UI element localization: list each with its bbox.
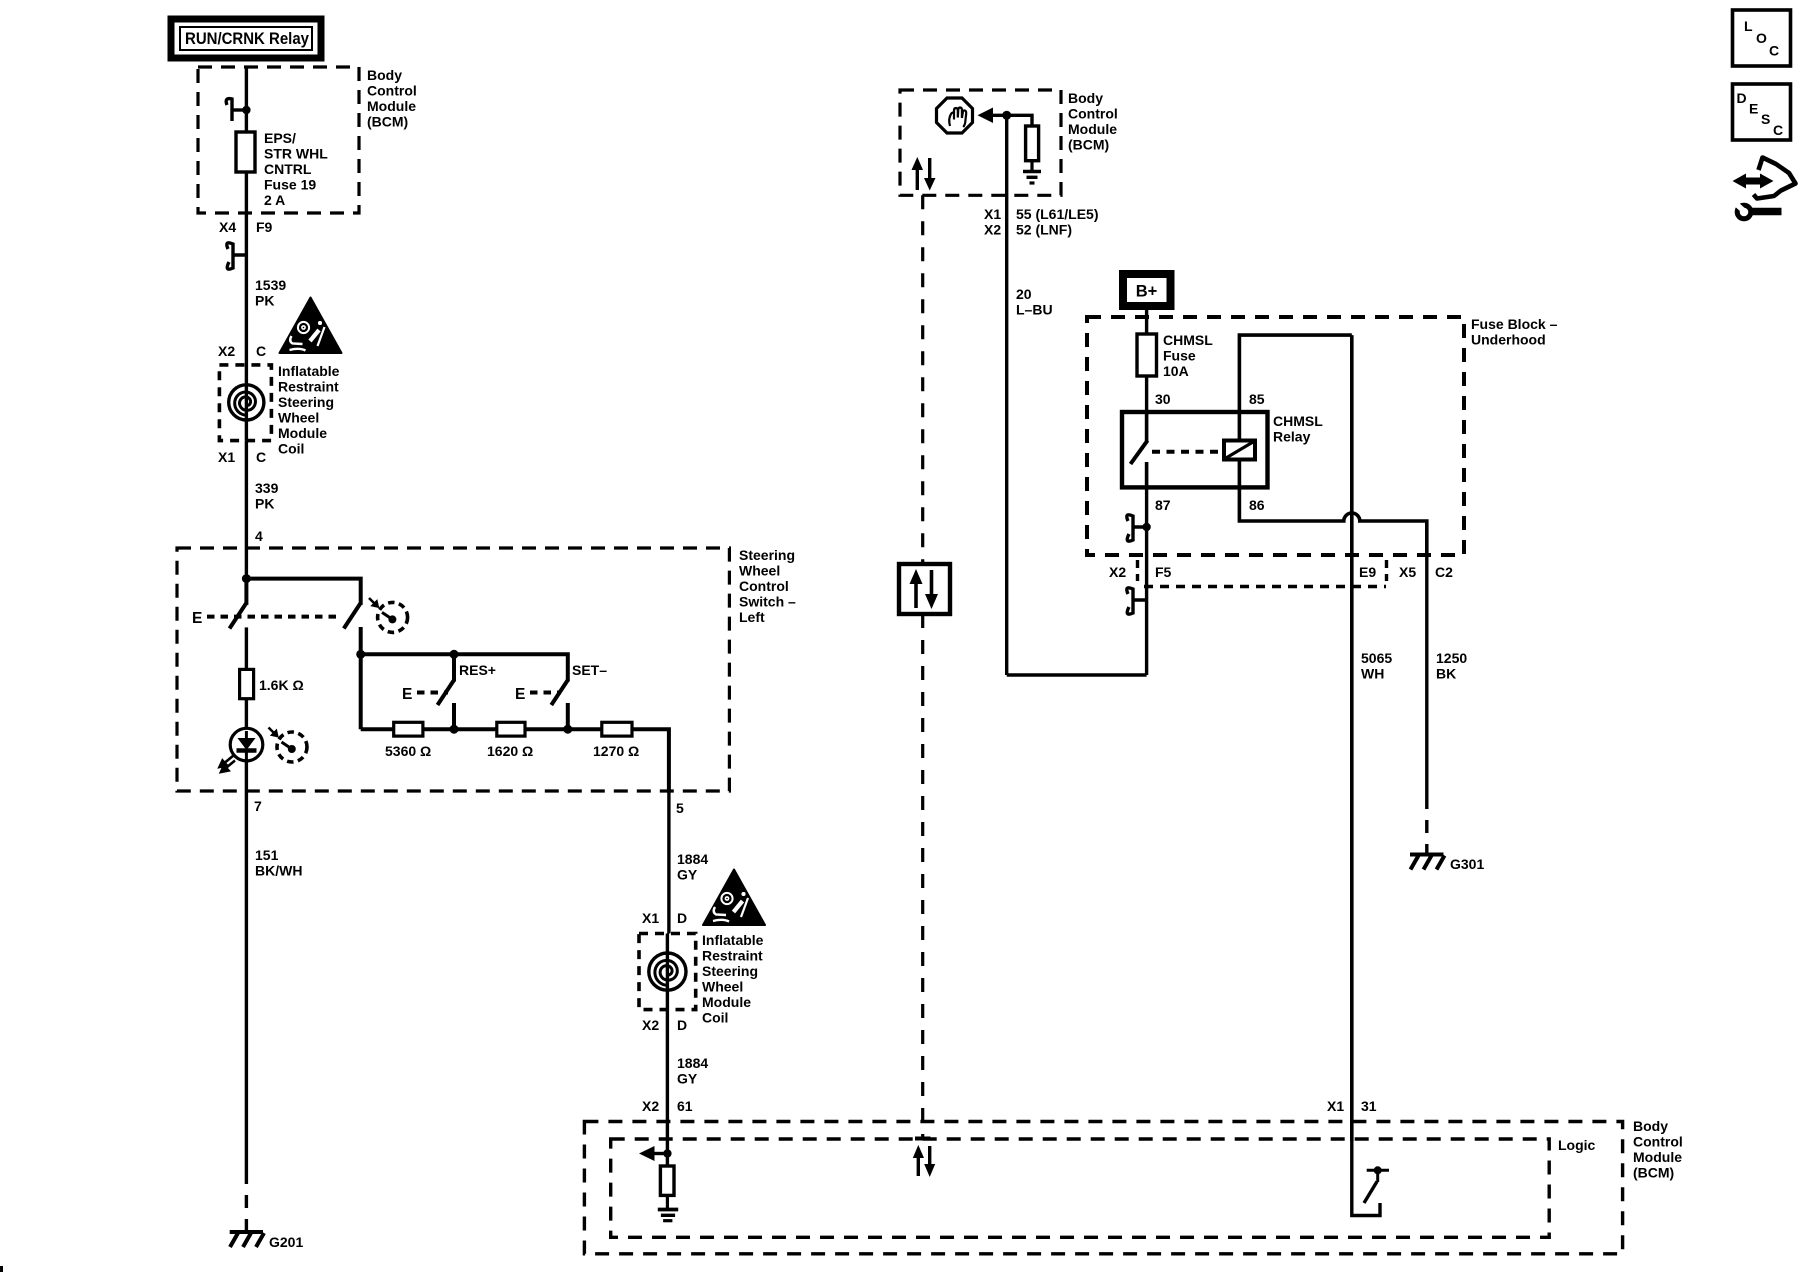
on/off switch common wire (244, 579, 248, 605)
nav icon DESC box (1733, 84, 1791, 140)
svg-text:L: L (1744, 18, 1753, 34)
svg-text:61: 61 (677, 1098, 693, 1114)
connector dashed strip at fuse block bottom (1138, 560, 1387, 587)
svg-text:55 (L61/LE5): 55 (L61/LE5) (1016, 206, 1098, 222)
svg-text:Module: Module (1633, 1149, 1682, 1165)
ground symbol in BCM top (1023, 161, 1041, 183)
svg-text:87: 87 (1155, 497, 1171, 513)
svg-text:1884: 1884 (677, 1055, 708, 1071)
svg-text:X2: X2 (218, 343, 235, 359)
svg-text:S: S (1761, 111, 1770, 127)
ground symbol in logic box (658, 1195, 678, 1220)
svg-text:31: 31 (1361, 1098, 1377, 1114)
power tag RUN/CRNK Relay (171, 19, 321, 58)
svg-text:D: D (677, 910, 687, 926)
svg-text:Switch –: Switch – (739, 594, 796, 610)
wire coil to steering wheel switch box (245, 441, 248, 579)
svg-text:Logic: Logic (1558, 1137, 1596, 1153)
dashed serial data wire from BCM (921, 195, 924, 564)
svg-text:E: E (192, 610, 202, 627)
svg-text:Module: Module (702, 994, 751, 1010)
svg-text:Control: Control (367, 83, 417, 99)
svg-text:C: C (256, 343, 266, 359)
switch on/off left blade (230, 604, 247, 629)
wire 151 BK/WH down (245, 791, 248, 1171)
up/down arrows in logic box (913, 1145, 935, 1177)
svg-text:Wheel: Wheel (739, 563, 780, 579)
serial data arrows box (899, 564, 950, 614)
node junction in BCM (1002, 111, 1011, 120)
svg-text:X2: X2 (642, 1098, 659, 1114)
dashed wire to G301 (1425, 796, 1428, 854)
svg-text:D: D (677, 1017, 687, 1033)
svg-text:151: 151 (255, 847, 279, 863)
svg-text:X2: X2 (642, 1017, 659, 1033)
arrow output left in logic (639, 1146, 672, 1161)
wire into logic pin 31 with internal switch (1352, 1141, 1389, 1216)
switch on/off right blade (344, 604, 361, 629)
switch RES+ (402, 654, 459, 733)
svg-text:O: O (1756, 30, 1767, 46)
svg-text:X5: X5 (1399, 564, 1416, 580)
wire coil 86 down and right with hop (1239, 459, 1426, 555)
svg-text:RES+: RES+ (459, 662, 496, 678)
resistor 1.6K (240, 669, 254, 698)
battery tag B+ (1123, 274, 1171, 306)
node junction RES+ rail (450, 650, 459, 659)
svg-text:C2: C2 (1435, 564, 1453, 580)
svg-text:Coil: Coil (278, 441, 304, 457)
coil spiral symbol 1 (229, 365, 264, 441)
dashed wire to G201 (245, 1171, 248, 1232)
wire below BCM with inline clip (245, 213, 248, 365)
svg-text:1.6K Ω: 1.6K Ω (259, 677, 304, 693)
svg-text:4: 4 (255, 528, 263, 544)
cruise icon by on/off switch (369, 598, 408, 632)
svg-text:5360 Ω: 5360 Ω (385, 743, 431, 759)
nav icon arrows and wrench (1733, 158, 1796, 219)
wire relay 87 down to F5 (1145, 487, 1148, 675)
svg-text:Restraint: Restraint (702, 948, 763, 964)
svg-text:Fuse 19: Fuse 19 (264, 177, 316, 193)
svg-text:GY: GY (677, 1071, 698, 1087)
wire across to fuse block F5 leg (1007, 673, 1147, 676)
svg-text:WH: WH (1361, 666, 1384, 682)
wire resistor to LED (245, 699, 248, 729)
svg-text:Inflatable: Inflatable (702, 932, 764, 948)
svg-text:X2: X2 (1109, 564, 1126, 580)
svg-text:CHMSL: CHMSL (1163, 332, 1213, 348)
relay coil (1224, 441, 1255, 460)
SIR caution triangle 1 (280, 298, 342, 354)
svg-text:85: 85 (1249, 391, 1265, 407)
svg-text:Wheel: Wheel (278, 410, 319, 426)
wire junction to pull-up resistor (1007, 115, 1032, 126)
svg-text:CNTRL: CNTRL (264, 161, 312, 177)
svg-text:X1: X1 (218, 449, 235, 465)
clip symbol at 87 (1127, 515, 1151, 541)
svg-text:E: E (402, 686, 412, 703)
svg-text:Module: Module (278, 425, 327, 441)
svg-text:52 (LNF): 52 (LNF) (1016, 222, 1072, 238)
svg-text:F5: F5 (1155, 564, 1172, 580)
arrow into stop lamp icon (978, 108, 1007, 124)
svg-text:Steering: Steering (278, 394, 334, 410)
up/down arrows in BCM top (912, 157, 936, 191)
serial data termination bar (915, 1137, 931, 1141)
ground G301 (1410, 855, 1445, 870)
svg-text:G201: G201 (269, 1234, 303, 1250)
svg-text:E: E (515, 686, 525, 703)
svg-text:20: 20 (1016, 286, 1032, 302)
svg-text:BK/WH: BK/WH (255, 863, 302, 879)
svg-text:Control: Control (739, 578, 789, 594)
wire from RUN/CRNK into BCM fuse (245, 67, 248, 132)
svg-text:B+: B+ (1136, 283, 1158, 301)
resistor ladder bottom rail (361, 729, 669, 791)
svg-text:Left: Left (739, 609, 765, 625)
LED indicator (220, 728, 263, 772)
wire fuse to BCM bottom edge (245, 172, 248, 213)
svg-text:1539: 1539 (255, 277, 286, 293)
svg-text:G301: G301 (1450, 856, 1484, 872)
svg-text:Inflatable: Inflatable (278, 363, 340, 379)
svg-text:Body: Body (1633, 1118, 1668, 1134)
svg-text:30: 30 (1155, 391, 1171, 407)
svg-text:Body: Body (367, 67, 402, 83)
wire 1250 BK down (1425, 555, 1428, 796)
svg-text:F9: F9 (256, 219, 273, 235)
wire top rail to on/off switch (246, 579, 360, 605)
switch SET- (515, 680, 572, 734)
stray mark bottom-left (0, 1266, 3, 1272)
relay actuation dashed link (1152, 450, 1222, 454)
SIR caution triangle 2 (703, 870, 765, 926)
module box BCM bottom outer (584, 1122, 1622, 1254)
svg-text:Wheel: Wheel (702, 979, 743, 995)
nav icon LOC box (1733, 10, 1791, 66)
svg-text:5065: 5065 (1361, 650, 1392, 666)
svg-text:BK: BK (1436, 666, 1456, 682)
svg-text:Module: Module (1068, 121, 1117, 137)
svg-text:(BCM): (BCM) (1068, 137, 1109, 153)
svg-text:X1: X1 (984, 206, 1001, 222)
svg-text:5: 5 (676, 800, 684, 816)
resistor in BCM top (1026, 126, 1039, 161)
svg-text:C: C (1773, 122, 1783, 138)
svg-text:E: E (1749, 101, 1758, 117)
module box Body Control Module (BCM) top-middle (900, 90, 1061, 195)
svg-text:PK: PK (255, 496, 274, 512)
svg-text:X4: X4 (219, 219, 236, 235)
resistor 5360 (394, 722, 423, 736)
wire BCM 55/52 output down (1005, 115, 1008, 675)
svg-text:1884: 1884 (677, 851, 708, 867)
svg-text:RUN/CRNK Relay: RUN/CRNK Relay (185, 30, 310, 48)
svg-text:Steering: Steering (702, 963, 758, 979)
svg-text:C: C (1769, 43, 1779, 59)
cruise icon by LED (269, 728, 308, 763)
svg-text:Relay: Relay (1273, 429, 1311, 445)
svg-text:X2: X2 (984, 222, 1001, 238)
relay CHMSL contact box (1122, 412, 1268, 487)
dashed serial data wire to logic box (921, 614, 924, 1138)
svg-text:SET–: SET– (572, 662, 607, 678)
wire fuse to relay 30 (1145, 376, 1148, 412)
wire into logic pin 61 (666, 1141, 669, 1166)
wire right leg down and resistor top rail (361, 627, 568, 729)
resistor in logic box (660, 1166, 674, 1195)
ground G201 (230, 1232, 264, 1247)
node junction top-left in switch box (242, 574, 251, 583)
svg-text:GY: GY (677, 867, 698, 883)
wire 1884 GY lower (666, 1010, 669, 1141)
svg-text:D: D (1737, 90, 1747, 106)
svg-text:X1: X1 (1327, 1098, 1344, 1114)
svg-text:7: 7 (254, 798, 262, 814)
wire LED to pin 7 (245, 761, 248, 791)
svg-text:1270 Ω: 1270 Ω (593, 743, 639, 759)
wire coil 85 up and over (1239, 335, 1351, 440)
module box Fuse Block Underhood (1087, 317, 1464, 555)
coil spiral symbol 2 (649, 934, 686, 1010)
clip symbol below X4/F9 (227, 243, 247, 269)
svg-text:Underhood: Underhood (1471, 332, 1546, 348)
svg-text:Coil: Coil (702, 1010, 728, 1026)
svg-text:Control: Control (1068, 106, 1118, 122)
resistor 1270 (602, 722, 632, 736)
svg-text:(BCM): (BCM) (1633, 1165, 1674, 1181)
svg-text:STR WHL: STR WHL (264, 146, 328, 162)
clip symbol below F5 (1127, 588, 1147, 614)
svg-text:CHMSL: CHMSL (1273, 413, 1323, 429)
fuse CHMSL 10A (1137, 334, 1157, 376)
coil module 2 dashed box (639, 934, 696, 1010)
module box Steering Wheel Control Switch Left (177, 548, 729, 791)
svg-text:PK: PK (255, 293, 274, 309)
svg-text:Restraint: Restraint (278, 379, 339, 395)
svg-text:339: 339 (255, 480, 279, 496)
svg-text:C: C (256, 449, 266, 465)
svg-text:Control: Control (1633, 1134, 1683, 1150)
clip symbol inside BCM (226, 99, 250, 121)
relay switch blade (1131, 412, 1148, 487)
svg-text:EPS/: EPS/ (264, 130, 296, 146)
svg-text:Steering: Steering (739, 547, 795, 563)
logic box inner (611, 1139, 1549, 1237)
fuse F19 EPS/STR WHL CNTRL (236, 132, 255, 172)
wire 1884 GY upper (667, 791, 670, 934)
wire on/off switch down to 1.6K resistor (245, 627, 248, 669)
svg-text:(BCM): (BCM) (367, 114, 408, 130)
svg-text:Module: Module (367, 98, 416, 114)
svg-text:10A: 10A (1163, 363, 1189, 379)
svg-text:Fuse: Fuse (1163, 348, 1196, 364)
stop lamp octagon icon (937, 98, 973, 133)
svg-text:1620 Ω: 1620 Ω (487, 743, 533, 759)
svg-text:X1: X1 (642, 910, 659, 926)
coil module 1 dashed box (219, 365, 271, 441)
module box Body Control Module (BCM) top-left (198, 67, 359, 213)
svg-text:86: 86 (1249, 497, 1265, 513)
svg-text:Fuse Block –: Fuse Block – (1471, 316, 1558, 332)
svg-text:2 A: 2 A (264, 192, 285, 208)
node junction right leg of on/off switch (356, 650, 365, 659)
svg-text:1250: 1250 (1436, 650, 1467, 666)
svg-text:L–BU: L–BU (1016, 302, 1053, 318)
wire B+ to CHMSL fuse (1145, 307, 1148, 335)
resistor 1620 (497, 722, 525, 736)
svg-text:Body: Body (1068, 90, 1103, 106)
svg-text:E9: E9 (1359, 564, 1376, 580)
wire 85 path down (5065 leg upper) (1350, 335, 1354, 1141)
